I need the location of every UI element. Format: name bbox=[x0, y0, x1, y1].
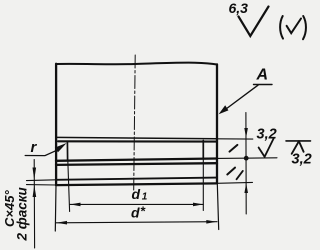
svg-text:A: A bbox=[256, 67, 269, 84]
label l (rotated stroke) bbox=[230, 145, 238, 152]
svg-text:1: 1 bbox=[142, 192, 148, 203]
centerline (axis) bbox=[134, 55, 136, 190]
roughness 3,2 inverted: right leg bbox=[299, 141, 304, 152]
junction dot l/l1 bbox=[244, 156, 249, 161]
svg-text:3,2: 3,2 bbox=[257, 127, 277, 143]
svg-text:*: * bbox=[140, 204, 146, 219]
label l1 (rotated strokes) bbox=[227, 168, 235, 175]
extension line l top bbox=[217, 138, 253, 140]
dimension line d1 bbox=[70, 203, 203, 205]
shoulder line bbox=[56, 137, 217, 138]
svg-text:2 фаски: 2 фаски bbox=[15, 186, 30, 241]
extension line d1 left bbox=[68, 160, 70, 212]
extension line d1 right bbox=[202, 159, 204, 211]
chamfer line bbox=[56, 178, 217, 180]
extension line to roughness mark bbox=[217, 157, 277, 160]
arrow l top (points down) bbox=[244, 128, 248, 138]
roughness 3,2 check on groove extension line bbox=[259, 139, 274, 157]
svg-text:d: d bbox=[131, 204, 140, 220]
bottom face line bbox=[56, 183, 217, 185]
roughness 3,2 inverted: bar bbox=[286, 140, 311, 142]
extension line c top bbox=[27, 179, 57, 182]
dimension line d* bbox=[56, 222, 217, 223]
svg-text:3,2: 3,2 bbox=[292, 152, 312, 168]
arrow d* right bbox=[206, 220, 216, 224]
extension line c bottom bbox=[27, 184, 57, 186]
arrowhead r leader bbox=[55, 143, 67, 152]
part outline: top break edge (wavy) bbox=[56, 63, 217, 65]
chamfer dimension line bbox=[33, 160, 35, 249]
arrowhead A leader bbox=[219, 105, 229, 114]
groove far-edge line bbox=[58, 140, 217, 142]
arrow c top (points down) bbox=[33, 168, 37, 180]
leader line A bbox=[224, 85, 258, 110]
parenthesized check: ( bbox=[280, 16, 283, 39]
svg-text:r: r bbox=[31, 139, 38, 156]
groove left vertical edge bbox=[66, 142, 68, 161]
part outline: left edge bbox=[55, 64, 57, 185]
extension line d* right bbox=[217, 184, 218, 230]
arrow c bottom (points up) bbox=[33, 185, 37, 197]
arrow l1 bottom (points up) bbox=[244, 183, 248, 193]
groove right vertical edge bbox=[202, 141, 204, 159]
svg-text:6,3: 6,3 bbox=[229, 0, 249, 16]
part outline: right edge bbox=[216, 64, 218, 183]
arrow d1 right bbox=[193, 203, 203, 207]
extension line l1 bottom bbox=[217, 181, 253, 184]
groove bottom line bbox=[56, 159, 217, 161]
dimension line l / l1 bbox=[245, 113, 247, 215]
roughness 3,2 inverted: left leg bbox=[292, 141, 299, 154]
roughness 6,3 check bbox=[239, 7, 269, 37]
svg-text:d: d bbox=[132, 186, 141, 202]
parenthesized check: inner check bbox=[287, 19, 301, 34]
arrow d1 left bbox=[70, 203, 80, 207]
second groove bottom line bbox=[56, 163, 217, 165]
parenthesized check: ) bbox=[303, 16, 306, 39]
leader line r bbox=[25, 150, 57, 155]
arrow d* left bbox=[57, 221, 67, 225]
extension line d* left bbox=[54, 185, 57, 231]
arrowheads bbox=[33, 105, 249, 224]
